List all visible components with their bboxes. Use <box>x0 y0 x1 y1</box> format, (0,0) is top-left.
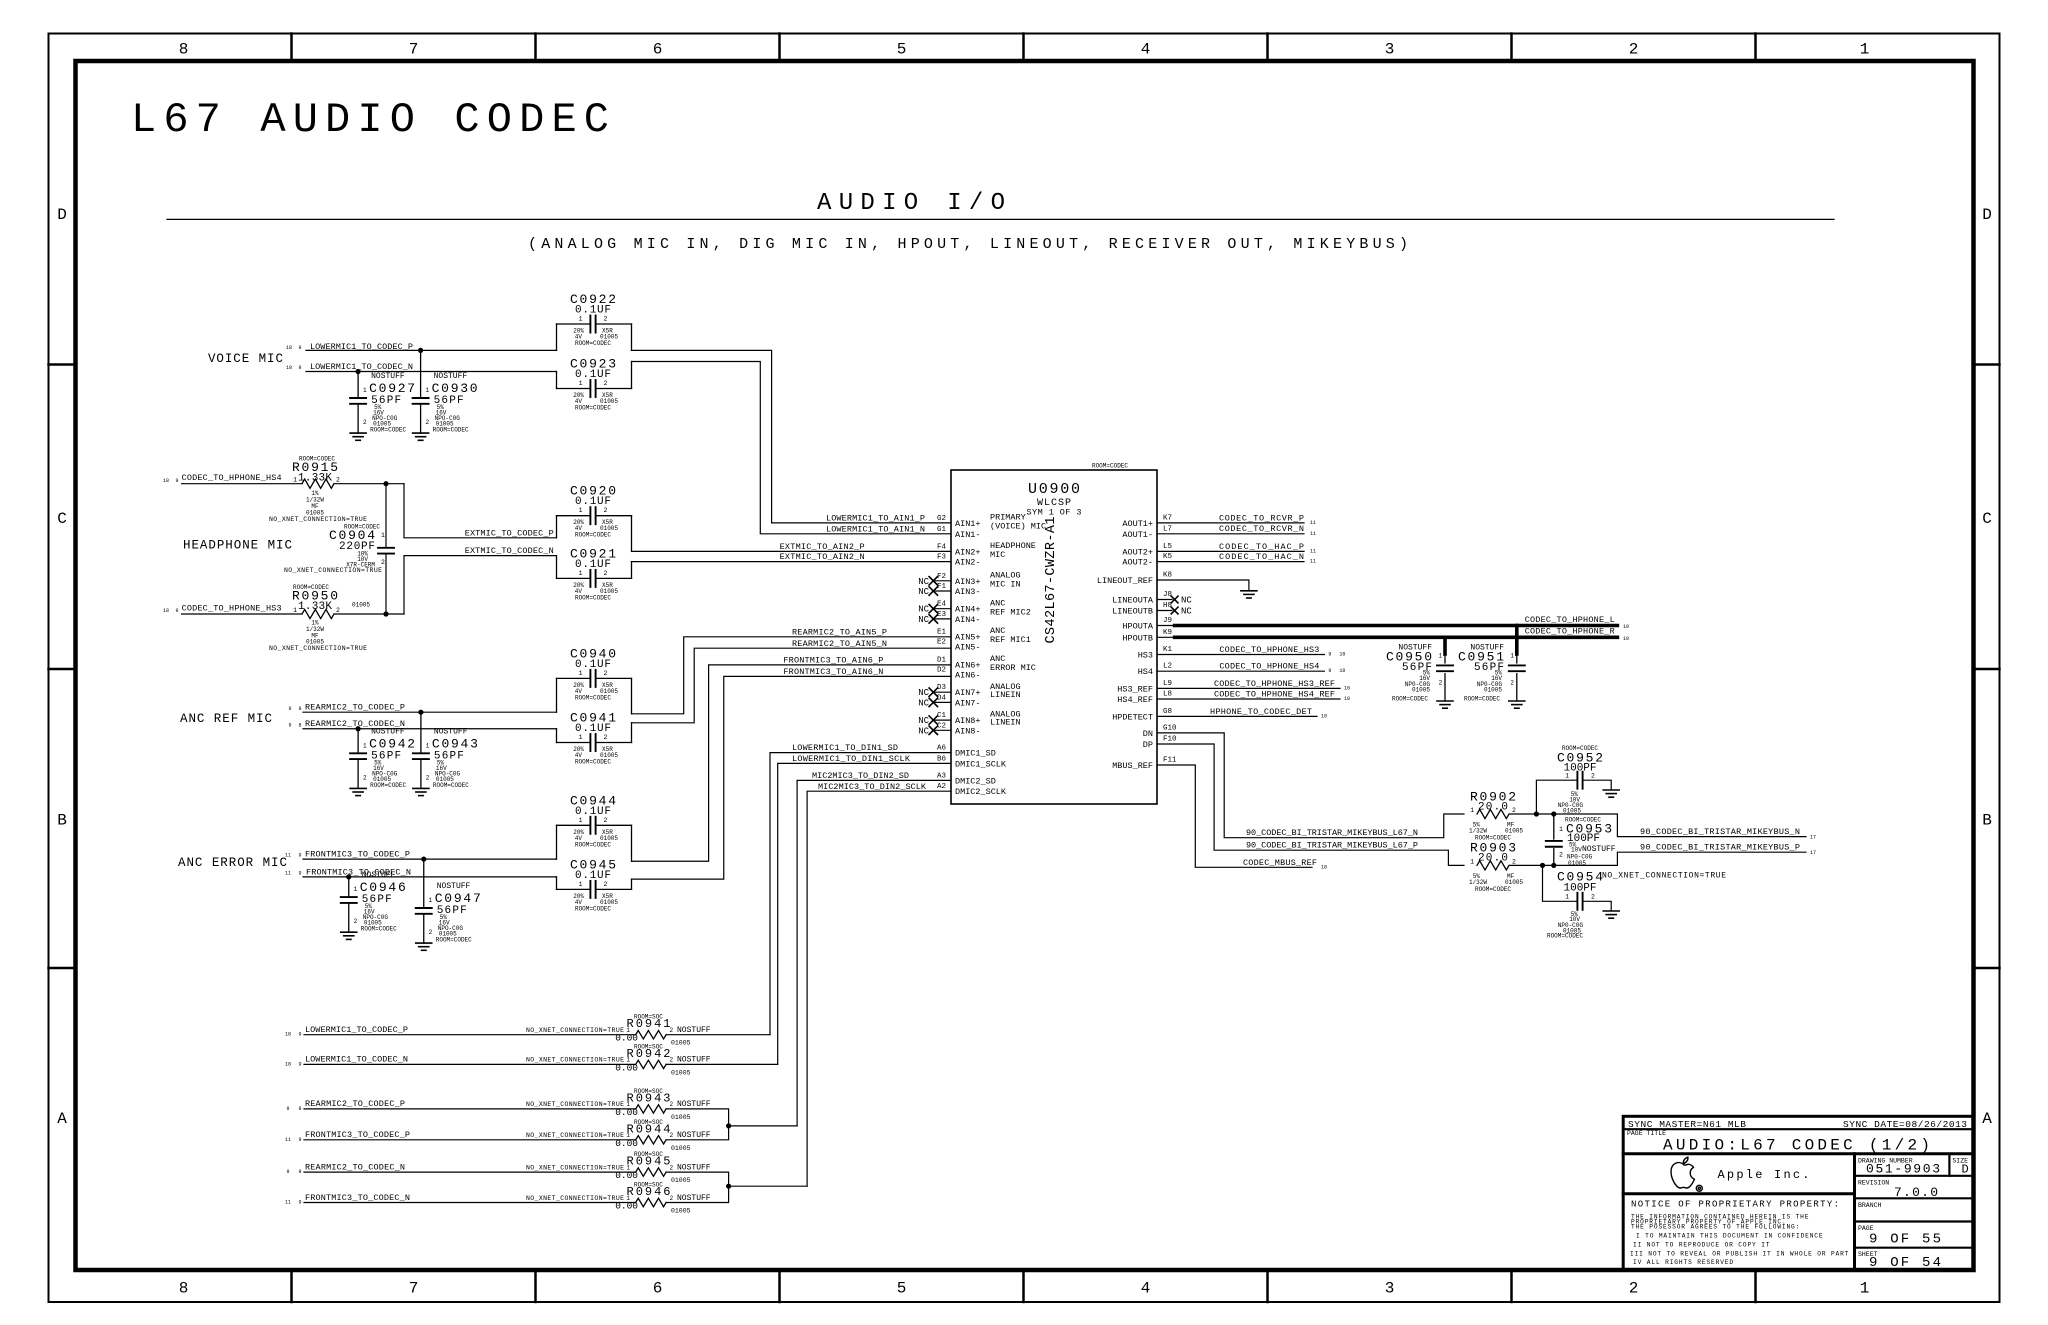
svg-text:NC: NC <box>918 605 929 615</box>
svg-text:2: 2 <box>670 1027 674 1034</box>
svg-text:NOSTUFF: NOSTUFF <box>677 1194 711 1203</box>
svg-text:9: 9 <box>298 853 301 859</box>
wire R0944 out <box>666 1126 729 1140</box>
svg-text:18: 18 <box>163 478 169 484</box>
svg-text:1: 1 <box>293 607 297 614</box>
svg-text:90_CODEC_BI_TRISTAR_MIKEYBUS_L: 90_CODEC_BI_TRISTAR_MIKEYBUS_L67_P <box>1246 841 1418 851</box>
svg-text:HPHONE_TO_CODEC_DET: HPHONE_TO_CODEC_DET <box>1210 707 1312 717</box>
svg-text:1: 1 <box>579 316 583 323</box>
capacitor C0921 <box>557 546 632 601</box>
svg-text:(VOICE) MIC: (VOICE) MIC <box>990 522 1046 532</box>
svg-text:20.0: 20.0 <box>1478 802 1508 814</box>
svg-text:LOWERMIC1_TO_DIN1_SCLK: LOWERMIC1_TO_DIN1_SCLK <box>792 754 911 764</box>
svg-text:CODEC_TO_RCVR_P: CODEC_TO_RCVR_P <box>1219 513 1304 523</box>
svg-text:LOWERMIC1_TO_CODEC_N: LOWERMIC1_TO_CODEC_N <box>305 1055 408 1065</box>
ground LINEOUT_REF <box>1241 590 1257 592</box>
svg-text:REARMIC2_TO_AIN5_N: REARMIC2_TO_AIN5_N <box>792 639 887 649</box>
svg-text:2: 2 <box>426 774 430 781</box>
svg-text:K7: K7 <box>1163 514 1172 522</box>
svg-text:11: 11 <box>285 870 291 876</box>
wire EXTMIC_TO_CODEC_P drop <box>404 484 557 538</box>
IC U0900 input descriptions <box>990 513 1046 728</box>
border column ticks bottom <box>290 1270 293 1302</box>
svg-text:2: 2 <box>1629 41 1639 59</box>
capacitor C0951 <box>1458 626 1525 709</box>
border column ticks top <box>290 34 293 62</box>
svg-text:6: 6 <box>653 1280 663 1298</box>
svg-text:11: 11 <box>285 1200 291 1206</box>
capacitor C0940 <box>557 646 632 713</box>
svg-text:J8: J8 <box>1163 591 1172 599</box>
pin G2 AIN1+ <box>937 515 981 529</box>
wire EXTMIC_TO_CODEC_N rise <box>404 556 557 614</box>
svg-text:NO_XNET_CONNECTION=TRUE: NO_XNET_CONNECTION=TRUE <box>526 1132 624 1139</box>
svg-text:K5: K5 <box>1163 553 1173 561</box>
svg-text:8: 8 <box>298 1106 301 1112</box>
svg-text:C0930: C0930 <box>432 381 478 396</box>
junction R0902 / C0953 <box>1551 811 1556 816</box>
svg-text:2: 2 <box>604 507 608 514</box>
capacitor C0954 <box>1543 865 1727 939</box>
svg-text:III NOT TO REVEAL OR PUBLISH I: III NOT TO REVEAL OR PUBLISH IT IN WHOLE… <box>1630 1250 1849 1257</box>
svg-text:ROOM=CODEC: ROOM=CODEC <box>433 427 469 434</box>
svg-text:HS4_REF: HS4_REF <box>1117 695 1153 705</box>
svg-text:4: 4 <box>1141 1280 1151 1298</box>
svg-text:8: 8 <box>179 41 189 59</box>
svg-text:1: 1 <box>354 886 358 893</box>
svg-text:HS3_REF: HS3_REF <box>1117 684 1153 694</box>
svg-text:A6: A6 <box>937 745 947 753</box>
svg-text:1: 1 <box>579 881 583 888</box>
wire LOWERMIC1_TO_CODEC_P bottom <box>304 1034 636 1036</box>
pin G1 AIN1- <box>937 526 981 540</box>
svg-text:1: 1 <box>1510 653 1514 660</box>
svg-text:9: 9 <box>298 1032 301 1038</box>
svg-text:0.00: 0.00 <box>615 1138 638 1149</box>
junction REARMIC2_TO_CODEC_P / C0943 <box>418 710 423 715</box>
svg-text:1: 1 <box>1439 653 1443 660</box>
svg-text:AIN6+: AIN6+ <box>955 660 981 670</box>
resistor R0942 <box>526 1043 711 1076</box>
capacitor C0942 <box>350 727 415 795</box>
svg-text:NOSTUFF: NOSTUFF <box>437 882 471 891</box>
svg-text:AIN8+: AIN8+ <box>955 716 981 726</box>
junction FRONTMIC3_TO_CODEC_P / C0947 <box>421 857 426 862</box>
svg-text:CODEC_TO_HPHONE_HS3: CODEC_TO_HPHONE_HS3 <box>182 604 282 614</box>
svg-text:10V: 10V <box>1571 846 1582 853</box>
wire LOWERMIC1_TO_DIN1_SCLK <box>778 763 951 1064</box>
svg-text:2: 2 <box>1512 807 1516 814</box>
svg-text:NC: NC <box>918 698 929 708</box>
svg-text:2: 2 <box>604 670 608 677</box>
svg-text:NOSTUFF: NOSTUFF <box>677 1163 711 1172</box>
wire CODEC_TO_HAC_P <box>1157 550 1304 552</box>
svg-text:9: 9 <box>298 345 301 351</box>
svg-text:NO_XNET_CONNECTION=TRUE: NO_XNET_CONNECTION=TRUE <box>526 1101 624 1108</box>
svg-text:C0927: C0927 <box>369 381 415 396</box>
svg-text:MIC: MIC <box>990 550 1005 560</box>
svg-text:2: 2 <box>604 734 608 741</box>
capacitor C0923 <box>557 357 632 412</box>
svg-text:FRONTMIC3_TO_AIN6_N: FRONTMIC3_TO_AIN6_N <box>783 667 883 677</box>
svg-text:BRANCH: BRANCH <box>1858 1202 1882 1209</box>
svg-text:NC: NC <box>918 688 929 698</box>
svg-text:EXTMIC_TO_AIN2_N: EXTMIC_TO_AIN2_N <box>780 552 865 562</box>
capacitor C0904 <box>284 484 394 614</box>
pin J9 HPOUTA <box>1122 617 1172 632</box>
svg-text:AOUT1-: AOUT1- <box>1122 530 1153 540</box>
svg-text:1: 1 <box>579 570 583 577</box>
svg-text:20.0: 20.0 <box>1478 853 1508 865</box>
svg-text:DP: DP <box>1143 740 1153 750</box>
capacitor C0945 <box>557 857 632 912</box>
pin K7 AOUT1+ <box>1122 514 1172 529</box>
resistor R0945 <box>526 1151 711 1184</box>
svg-text:L9: L9 <box>1163 680 1172 688</box>
svg-text:LINEIN: LINEIN <box>990 718 1021 728</box>
svg-text:AIN3+: AIN3+ <box>955 577 981 587</box>
junction DIN2_SD mux <box>726 1123 731 1128</box>
pin G10 DN <box>1143 724 1177 739</box>
svg-text:ROOM=CODEC: ROOM=CODEC <box>370 782 406 789</box>
svg-text:2: 2 <box>1591 773 1595 780</box>
svg-text:FRONTMIC3_TO_AIN6_P: FRONTMIC3_TO_AIN6_P <box>783 655 883 665</box>
svg-text:AIN7-: AIN7- <box>955 698 981 708</box>
junction FRONTMIC3_TO_CODEC_N / C0946 <box>346 874 351 879</box>
svg-text:11: 11 <box>1310 548 1316 554</box>
svg-text:01005: 01005 <box>1412 686 1430 693</box>
svg-text:1: 1 <box>429 897 433 904</box>
border row ticks right <box>1974 363 2000 366</box>
svg-text:HPOUTA: HPOUTA <box>1122 622 1154 632</box>
svg-text:AIN7+: AIN7+ <box>955 688 981 698</box>
wire C0945 out to AIN6_N <box>632 676 952 879</box>
svg-text:REVISION: REVISION <box>1858 1179 1889 1186</box>
svg-text:2: 2 <box>670 1195 674 1202</box>
junction REARMIC2_TO_CODEC_N / C0942 <box>356 726 361 731</box>
svg-text:8: 8 <box>298 723 301 729</box>
svg-text:MIC2MIC3_TO_DIN2_SD: MIC2MIC3_TO_DIN2_SD <box>812 771 909 781</box>
junction R0903 / C0953 <box>1551 863 1556 868</box>
svg-text:HPDETECT: HPDETECT <box>1112 712 1153 722</box>
svg-text:FRONTMIC3_TO_CODEC_P: FRONTMIC3_TO_CODEC_P <box>305 850 410 860</box>
svg-text:L8: L8 <box>1163 691 1172 699</box>
svg-text:7: 7 <box>409 1280 419 1298</box>
resistor R0941 <box>526 1014 711 1047</box>
svg-text:NO_XNET_CONNECTION=TRUE: NO_XNET_CONNECTION=TRUE <box>526 1027 624 1034</box>
capacitor C0941 <box>557 711 632 766</box>
svg-text:01005: 01005 <box>1563 808 1581 815</box>
svg-text:10: 10 <box>1321 713 1327 719</box>
svg-text:1: 1 <box>1565 773 1569 780</box>
resistor R0946 <box>526 1182 711 1215</box>
wire R0946 out <box>666 1186 729 1202</box>
svg-text:B: B <box>57 812 67 830</box>
svg-text:2: 2 <box>1559 852 1563 859</box>
svg-text:NO_XNET_CONNECTION=TRUE: NO_XNET_CONNECTION=TRUE <box>284 567 382 574</box>
svg-text:051-9903: 051-9903 <box>1866 1162 1940 1177</box>
svg-text:01005: 01005 <box>671 1177 691 1184</box>
title block frame <box>1623 1116 1973 1270</box>
wire MIC2MIC3_TO_DIN2_SCLK <box>807 791 951 1186</box>
wire DN G10 <box>1157 733 1464 838</box>
svg-text:NOSTUFF: NOSTUFF <box>371 727 405 736</box>
svg-text:11: 11 <box>285 1137 291 1143</box>
svg-text:2: 2 <box>363 419 367 426</box>
pin K9 HPOUTB <box>1122 629 1172 644</box>
svg-text:DN: DN <box>1143 729 1153 739</box>
capacitor C0947 <box>416 859 481 950</box>
wire DIN2_SCLK link <box>729 1185 808 1187</box>
svg-text:AUDIO I/O: AUDIO I/O <box>817 190 1005 217</box>
svg-text:ROOM=CODEC: ROOM=CODEC <box>575 532 611 539</box>
pin B6 DMIC1_SCLK <box>937 755 1007 769</box>
junction R0903 / C0954 <box>1540 863 1545 868</box>
svg-text:2: 2 <box>604 316 608 323</box>
capacitor C0922 <box>557 292 632 350</box>
svg-text:AOUT2-: AOUT2- <box>1122 558 1153 568</box>
pin L5 AOUT2+ <box>1122 543 1172 558</box>
svg-text:C0943: C0943 <box>432 736 478 751</box>
svg-text:CODEC_TO_HAC_N: CODEC_TO_HAC_N <box>1219 552 1304 562</box>
svg-text:B6: B6 <box>937 755 947 763</box>
Apple logo <box>1671 1157 1702 1191</box>
svg-text:LOWERMIC1_TO_AIN1_N: LOWERMIC1_TO_AIN1_N <box>826 524 925 534</box>
wire FRONTMIC3_TO_CODEC_N <box>303 876 557 878</box>
svg-text:1: 1 <box>1470 858 1474 865</box>
svg-text:18: 18 <box>163 608 169 614</box>
svg-text:ROOM=CODEC: ROOM=CODEC <box>370 427 406 434</box>
svg-text:LINEIN: LINEIN <box>990 690 1021 700</box>
IC U0900 CS42L67 <box>951 463 1157 804</box>
svg-text:01005: 01005 <box>671 1069 691 1076</box>
svg-text:1: 1 <box>1565 894 1569 901</box>
svg-text:9: 9 <box>286 1106 289 1112</box>
wire R0943 out <box>666 1109 729 1126</box>
svg-text:G1: G1 <box>937 526 947 534</box>
svg-text:EXTMIC_TO_AIN2_P: EXTMIC_TO_AIN2_P <box>780 542 865 552</box>
svg-text:AIN8-: AIN8- <box>955 726 981 736</box>
svg-text:01005: 01005 <box>1568 860 1586 867</box>
svg-text:5: 5 <box>897 1280 907 1298</box>
pin E3 AIN4- <box>918 611 980 625</box>
wire C0944 out to AIN6_P <box>632 665 952 861</box>
wire DP F10 <box>1157 744 1464 865</box>
wire REARMIC2_TO_CODEC_N <box>303 728 557 730</box>
svg-text:NC: NC <box>918 587 929 597</box>
svg-text:ERROR MIC: ERROR MIC <box>990 663 1036 673</box>
svg-text:K1: K1 <box>1163 646 1173 654</box>
svg-text:2: 2 <box>1591 894 1595 901</box>
svg-text:CODEC_MBUS_REF: CODEC_MBUS_REF <box>1243 858 1317 868</box>
capacitor C0946 <box>341 871 406 939</box>
svg-text:I TO MAINTAIN THIS DOCUMENT IN: I TO MAINTAIN THIS DOCUMENT IN CONFIDENC… <box>1636 1233 1823 1240</box>
svg-text:D2: D2 <box>937 667 946 675</box>
svg-text:9: 9 <box>298 365 301 371</box>
svg-text:NOSTUFF: NOSTUFF <box>362 871 396 880</box>
svg-text:REARMIC2_TO_CODEC_P: REARMIC2_TO_CODEC_P <box>305 1099 405 1109</box>
svg-text:MIC2MIC3_TO_DIN2_SCLK: MIC2MIC3_TO_DIN2_SCLK <box>818 782 927 792</box>
pin J8 LINEOUTA <box>1112 591 1172 606</box>
svg-text:EXTMIC_TO_CODEC_N: EXTMIC_TO_CODEC_N <box>465 546 554 556</box>
svg-text:SYNC MASTER=N61 MLB: SYNC MASTER=N61 MLB <box>1628 1119 1746 1130</box>
svg-text:CODEC_TO_RCVR_N: CODEC_TO_RCVR_N <box>1219 524 1304 534</box>
wire LOWERMIC1_TO_CODEC_N bottom <box>304 1063 636 1065</box>
wire R0941 out <box>666 1034 770 1036</box>
svg-text:AIN1+: AIN1+ <box>955 519 981 529</box>
svg-text:NOSTUFF: NOSTUFF <box>371 372 405 381</box>
svg-text:ROOM=CODEC: ROOM=CODEC <box>1092 463 1128 470</box>
svg-text:AIN1-: AIN1- <box>955 530 981 540</box>
svg-text:9: 9 <box>286 1169 289 1175</box>
svg-text:NOTICE OF PROPRIETARY PROPERTY: NOTICE OF PROPRIETARY PROPERTY: <box>1631 1200 1839 1210</box>
svg-text:SYNC DATE=08/26/2013: SYNC DATE=08/26/2013 <box>1843 1119 1967 1130</box>
svg-text:HPOUTB: HPOUTB <box>1122 633 1153 643</box>
wire R0950 out <box>334 613 404 615</box>
svg-text:1: 1 <box>1860 41 1870 59</box>
border row ticks left <box>49 363 76 366</box>
wire R0945 out <box>666 1172 729 1186</box>
svg-text:9: 9 <box>1328 652 1331 658</box>
svg-text:EXTMIC_TO_CODEC_P: EXTMIC_TO_CODEC_P <box>465 528 554 538</box>
svg-text:NO_XNET_CONNECTION=TRUE: NO_XNET_CONNECTION=TRUE <box>269 645 367 652</box>
svg-text:REF MIC2: REF MIC2 <box>990 608 1031 618</box>
svg-text:9: 9 <box>175 478 178 484</box>
svg-text:5: 5 <box>897 41 907 59</box>
title block right cell dividers <box>1855 1175 1974 1177</box>
svg-text:AIN4+: AIN4+ <box>955 605 981 615</box>
svg-text:2: 2 <box>604 881 608 888</box>
svg-text:2: 2 <box>604 817 608 824</box>
svg-text:2: 2 <box>1512 858 1516 865</box>
svg-text:ROOM=CODEC: ROOM=CODEC <box>575 340 611 347</box>
junction R0915 / C0904 top <box>383 481 388 486</box>
capacitor C0920 <box>557 484 632 552</box>
svg-text:ROOM=CODEC: ROOM=CODEC <box>1475 886 1511 893</box>
svg-text:L2: L2 <box>1163 663 1172 671</box>
svg-text:1: 1 <box>293 477 297 484</box>
svg-text:NO_XNET_CONNECTION=TRUE: NO_XNET_CONNECTION=TRUE <box>526 1164 624 1171</box>
svg-text:DMIC1_SCLK: DMIC1_SCLK <box>955 759 1007 769</box>
svg-text:F3: F3 <box>937 554 947 562</box>
wire CODEC_TO_HPHONE_HS3 <box>182 613 302 615</box>
wire CODEC_TO_HPHONE_HS4 <box>182 483 302 485</box>
pin F2 AIN3+ <box>918 573 980 587</box>
svg-text:18: 18 <box>286 365 292 371</box>
wire CODEC_TO_HAC_N <box>1157 561 1304 563</box>
svg-text:90_CODEC_BI_TRISTAR_MIKEYBUS_P: 90_CODEC_BI_TRISTAR_MIKEYBUS_P <box>1640 843 1800 853</box>
svg-text:18: 18 <box>1321 864 1327 870</box>
svg-text:AOUT1+: AOUT1+ <box>1122 519 1153 529</box>
svg-text:2: 2 <box>429 929 433 936</box>
pin F4 AIN2+ <box>937 543 981 557</box>
pin L9 HS3_REF <box>1117 680 1172 695</box>
svg-text:K8: K8 <box>1163 572 1172 580</box>
svg-text:1/32W: 1/32W <box>1469 828 1487 835</box>
svg-text:CODEC_TO_HPHONE_HS4: CODEC_TO_HPHONE_HS4 <box>182 473 282 483</box>
svg-text:LINEOUT_REF: LINEOUT_REF <box>1097 576 1153 586</box>
svg-text:ROOM=CODEC: ROOM=CODEC <box>575 405 611 412</box>
svg-text:C: C <box>1982 510 1992 528</box>
svg-text:01005: 01005 <box>1484 686 1502 693</box>
svg-text:ROOM=CODEC: ROOM=CODEC <box>361 926 397 933</box>
svg-text:CODEC_TO_HPHONE_HS4_REF: CODEC_TO_HPHONE_HS4_REF <box>1214 689 1335 699</box>
capacitor C0927 <box>350 372 415 441</box>
svg-text:FRONTMIC3_TO_CODEC_N: FRONTMIC3_TO_CODEC_N <box>305 1193 410 1203</box>
wire MIC2MIC3_TO_DIN2_SD <box>797 780 951 1126</box>
wire HPOUTA thick <box>1157 625 1175 627</box>
svg-text:NOSTUFF: NOSTUFF <box>1582 845 1616 854</box>
svg-text:01005: 01005 <box>352 602 370 609</box>
junction DIN2_SCLK mux <box>726 1184 731 1189</box>
svg-text:9: 9 <box>298 870 301 876</box>
svg-text:AIN2-: AIN2- <box>955 558 981 568</box>
svg-text:2: 2 <box>425 419 429 426</box>
svg-text:ROOM=CODEC: ROOM=CODEC <box>575 841 611 848</box>
resistor R0902 <box>1469 790 1523 842</box>
wire C0941 out to AIN5_N <box>632 648 952 723</box>
wire CODEC_TO_HPHONE_HS3 <box>1157 654 1324 656</box>
svg-text:NOSTUFF: NOSTUFF <box>434 372 468 381</box>
svg-text:9: 9 <box>288 706 291 712</box>
svg-text:DMIC2_SD: DMIC2_SD <box>955 776 996 786</box>
svg-text:2: 2 <box>670 1101 674 1108</box>
svg-text:7: 7 <box>409 41 419 59</box>
svg-text:ROOM=CODEC: ROOM=CODEC <box>575 905 611 912</box>
pin F3 AIN2- <box>937 554 981 568</box>
svg-text:2: 2 <box>670 1132 674 1139</box>
svg-text:REF MIC1: REF MIC1 <box>990 635 1031 645</box>
svg-text:REARMIC2_TO_CODEC_P: REARMIC2_TO_CODEC_P <box>305 703 405 713</box>
pin A6 DMIC1_SD <box>937 745 996 759</box>
svg-text:NO_XNET_CONNECTION=TRUE: NO_XNET_CONNECTION=TRUE <box>1602 872 1726 881</box>
svg-text:1: 1 <box>425 387 429 394</box>
svg-text:0.00: 0.00 <box>615 1107 638 1118</box>
pin L7 AOUT1- <box>1122 525 1172 540</box>
capacitor C0953 <box>1546 814 1616 867</box>
wire CODEC_TO_HPHONE_HS4 <box>1157 670 1324 672</box>
wire HPOUTB thick <box>1157 636 1175 638</box>
wire CODEC_TO_HPHONE_HS4_REF <box>1157 698 1340 700</box>
svg-text:NC: NC <box>1181 596 1192 606</box>
svg-text:L5: L5 <box>1163 543 1173 551</box>
svg-text:D: D <box>57 206 67 224</box>
svg-text:18: 18 <box>285 1032 291 1038</box>
svg-text:NO_XNET_CONNECTION=TRUE: NO_XNET_CONNECTION=TRUE <box>526 1195 624 1202</box>
wire EXTMIC_TO_AIN2_N <box>632 561 952 563</box>
pin C1 AIN8+ <box>918 712 980 726</box>
svg-text:C0947: C0947 <box>435 891 481 906</box>
svg-text:17: 17 <box>1810 850 1816 856</box>
junction LOWERMIC1_TO_CODEC_P / C0930 <box>418 348 423 353</box>
no-connect LINEOUTA J8 <box>1157 599 1172 601</box>
svg-text:17: 17 <box>1810 835 1816 841</box>
pin K5 AOUT2- <box>1122 553 1172 568</box>
svg-text:ROOM=CODEC: ROOM=CODEC <box>433 782 469 789</box>
svg-text:4: 4 <box>1141 41 1151 59</box>
svg-text:HEADPHONE MIC: HEADPHONE MIC <box>183 539 292 553</box>
svg-text:II NOT TO REPRODUCE OR COPY IT: II NOT TO REPRODUCE OR COPY IT <box>1633 1242 1770 1249</box>
svg-text:R0941: R0941 <box>627 1017 671 1031</box>
svg-text:1: 1 <box>381 532 385 539</box>
svg-text:G2: G2 <box>937 515 946 523</box>
svg-text:10: 10 <box>1339 668 1345 674</box>
resistor R0915 <box>269 456 367 523</box>
svg-text:VOICE MIC: VOICE MIC <box>208 352 283 366</box>
resistor R0943 <box>526 1088 711 1121</box>
svg-text:A: A <box>1982 1110 1992 1128</box>
svg-text:18: 18 <box>285 1061 291 1067</box>
